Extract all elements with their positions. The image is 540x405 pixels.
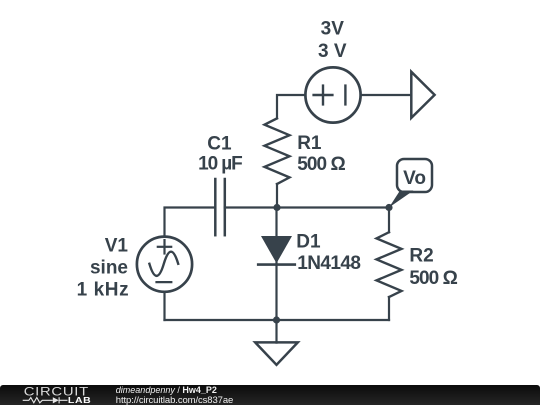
junction node at Vo / R2 top [385,204,392,211]
svg-text:3 V: 3 V [318,41,347,62]
wire middle rail left (C1 left lead and down to V1) [165,208,216,237]
voltage source V1 circle [137,237,192,292]
svg-text:V1: V1 [105,236,129,257]
V1 plus symbol [158,240,171,253]
wire bottom rail [165,319,390,321]
svg-text:C1: C1 [207,133,232,154]
footer bar [0,385,540,405]
wire top-left from corner to 3V source [277,95,305,118]
wire V1 bottom lead [163,292,165,320]
wire middle rail right (C1 to R2 top node) [225,206,389,208]
svg-text:http://circuitlab.com/cs837ae: http://circuitlab.com/cs837ae [116,395,234,405]
V1 minus symbol [157,281,172,283]
svg-text:10 µF: 10 µF [198,153,243,174]
wire R2 top lead [388,208,390,233]
V1 sine symbol [149,252,178,276]
svg-text:D1: D1 [296,232,321,253]
V2 plus symbol [314,86,333,105]
svg-text:500 Ω: 500 Ω [297,154,346,175]
node Vo flag box [397,159,432,192]
svg-text:Vo: Vo [403,168,426,189]
wire from 3V source to flag [361,94,411,96]
svg-text:3V: 3V [321,19,345,40]
diode D1 wire (anode to cathode through) [275,208,277,321]
svg-text:R1: R1 [297,133,322,154]
diode D1 cathode bar [258,263,295,266]
resistor R2 zigzag [377,232,402,297]
voltage source V2 (3V) circle [305,67,360,122]
svg-text:dimeandpenny / Hw4_P2: dimeandpenny / Hw4_P2 [116,385,217,395]
diode D1 triangle [261,236,292,263]
svg-text:1 kHz: 1 kHz [77,280,129,301]
wire R2 bottom lead [388,297,390,320]
svg-text:1N4148: 1N4148 [297,253,361,274]
ground wire stub [275,320,277,343]
resistor R1 zigzag [265,118,290,184]
svg-text:R2: R2 [409,246,433,267]
svg-text:500 Ω: 500 Ω [409,268,458,289]
node Vo flag pointer [389,191,414,208]
V2 minus symbol [344,86,346,105]
wire R1 bottom lead [276,184,278,208]
svg-text:sine: sine [90,258,128,279]
net flag (output arrow) [411,72,434,118]
junction node at D1 bottom / ground [273,316,280,323]
logo resistor zigzag and diode [23,397,68,403]
ground symbol triangle [255,342,298,364]
svg-text:LAB: LAB [68,395,91,405]
capacitor C1 plates [215,179,225,235]
junction node at R1/C1/D1 [273,204,280,211]
